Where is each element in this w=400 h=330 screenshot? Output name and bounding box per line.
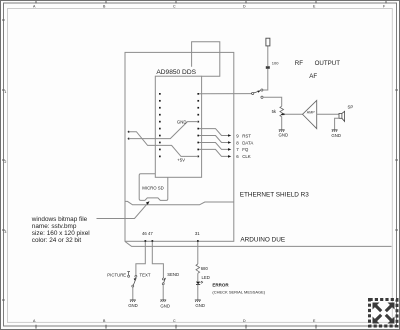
pin 31 xyxy=(197,240,199,242)
ground speaker xyxy=(332,130,338,132)
ground TEXT switch xyxy=(130,300,136,302)
op-amp U2 AMP xyxy=(303,100,317,128)
ground pot xyxy=(279,130,285,132)
svg-text:AD9850 DDS: AD9850 DDS xyxy=(156,69,196,76)
wire +5V net to U1 pin xyxy=(129,132,199,157)
arduino due board outline xyxy=(125,52,234,241)
svg-text:100: 100 xyxy=(272,60,279,65)
wire TEXT switch to ground xyxy=(132,287,134,300)
wire resistor to LED xyxy=(197,273,199,281)
frame letters bottom xyxy=(33,319,316,323)
wire LED to ground xyxy=(197,285,199,300)
svg-text:GND: GND xyxy=(128,303,138,308)
svg-text:AF: AF xyxy=(309,73,317,80)
svg-text:GND: GND xyxy=(177,119,187,124)
switch S1 lever xyxy=(254,91,259,93)
node GND feed junction xyxy=(128,138,130,140)
node +5V feed junction xyxy=(128,131,130,133)
switch position stub PICTURE xyxy=(127,272,130,278)
svg-text:ARDUINO DUE: ARDUINO DUE xyxy=(240,236,285,243)
wire pin 47 to SEND switch xyxy=(152,242,163,278)
svg-text:TEXT: TEXT xyxy=(140,273,151,278)
svg-text:FQ: FQ xyxy=(242,147,249,152)
speaker LS1 xyxy=(339,111,345,121)
svg-text:CLK: CLK xyxy=(242,154,251,159)
svg-text:GND: GND xyxy=(195,303,205,308)
expand icon xyxy=(370,300,398,327)
LED light arrows xyxy=(201,281,203,283)
switch S2 lever xyxy=(133,278,136,285)
svg-text:windows bitmap file: windows bitmap file xyxy=(31,216,88,223)
pin 46 xyxy=(145,240,147,242)
svg-text:MICRO SD: MICRO SD xyxy=(142,185,164,190)
svg-text:SEND: SEND xyxy=(167,272,179,277)
switch S2 TEXT contact top xyxy=(135,275,137,277)
resistor R2 680 xyxy=(196,264,200,273)
LED D1 xyxy=(196,282,200,285)
pins left column of U1 xyxy=(159,93,161,157)
wire ethernet shield separator xyxy=(125,201,234,204)
potentiometer P1 5k xyxy=(280,106,284,116)
frame ticks right xyxy=(395,90,398,230)
wire wiper to amplifier xyxy=(285,113,303,115)
ground SEND switch xyxy=(160,300,166,302)
svg-text:RST: RST xyxy=(242,133,251,138)
switch S2 lever arrowhead xyxy=(134,278,136,281)
svg-text:+5V: +5V xyxy=(177,157,185,162)
frame ticks bottom xyxy=(36,325,316,329)
svg-text:OUTPUT: OUTPUT xyxy=(315,60,341,67)
wire DATA to pin 8 xyxy=(199,136,229,143)
svg-text:31: 31 xyxy=(195,231,200,236)
wire GND net to U1 pin xyxy=(129,122,199,139)
svg-text:PICTURE: PICTURE xyxy=(107,273,126,278)
svg-text:DATA: DATA xyxy=(242,140,253,145)
switch S1 lever arrowhead xyxy=(257,90,260,92)
svg-text:LED: LED xyxy=(202,275,210,280)
wire pin 31 to resistor xyxy=(197,242,199,264)
svg-text:C: C xyxy=(173,319,176,323)
svg-text:D: D xyxy=(243,319,246,323)
svg-text:RF: RF xyxy=(295,60,303,67)
switch S3 SEND contact top xyxy=(162,278,164,280)
switch S3 contact bottom xyxy=(162,283,164,285)
frame letters xyxy=(4,5,386,234)
svg-text:46 47: 46 47 xyxy=(142,231,153,236)
wire speaker to ground xyxy=(335,118,339,129)
svg-text:D: D xyxy=(243,5,246,9)
svg-text:size: 160 x 120 pixel: size: 160 x 120 pixel xyxy=(32,230,90,237)
wire resistor to antenna stub xyxy=(267,46,269,66)
switch S2 contact bottom xyxy=(132,285,134,287)
antenna E1 xyxy=(266,38,270,46)
pin 47 xyxy=(152,240,154,242)
ground LED xyxy=(195,300,201,302)
label bracket to AD9850 DDS xyxy=(192,42,220,76)
arrowhead FQ xyxy=(228,148,231,151)
AD9850 DDS module box U1 xyxy=(155,76,201,177)
svg-text:GND: GND xyxy=(331,133,341,138)
node wiper junction xyxy=(283,113,285,115)
arrowhead pointer xyxy=(146,201,150,205)
wire CLK to pin 6 xyxy=(199,149,229,156)
switch S1 RF contact xyxy=(261,89,263,91)
svg-text:ETHERNET SHIELD R3: ETHERNET SHIELD R3 xyxy=(240,191,310,198)
wire SEND switch to ground xyxy=(162,285,164,300)
svg-text:1: 1 xyxy=(4,90,6,94)
svg-text:C: C xyxy=(173,5,176,9)
svg-text:AMP: AMP xyxy=(307,110,315,114)
potentiometer wiper arrow xyxy=(282,113,284,115)
wire pot to ground xyxy=(281,117,283,130)
svg-text:name: sstv.bmp: name: sstv.bmp xyxy=(32,223,77,230)
switch S3 lever xyxy=(164,278,166,283)
wire DDS output to switch xyxy=(199,93,252,95)
arrowhead RST xyxy=(228,134,231,137)
arrowhead CLK xyxy=(228,155,231,158)
wire FQ to pin 7 xyxy=(199,143,229,150)
micro SD card holder xyxy=(139,174,168,201)
wire pin 46 to TEXT switch xyxy=(136,242,145,275)
svg-text:ERROR: ERROR xyxy=(212,283,229,288)
svg-text:(CHECK SERIAL MESSAGE): (CHECK SERIAL MESSAGE) xyxy=(212,289,265,294)
wire amplifier to speaker xyxy=(317,113,339,115)
frame ticks left xyxy=(2,20,5,300)
switch S1 AF contact xyxy=(261,96,263,98)
wire RST to pin 9 xyxy=(199,129,229,136)
svg-text:3: 3 xyxy=(4,230,6,234)
label windows bitmap file note xyxy=(31,216,90,244)
wire RF contact to antenna xyxy=(263,69,268,90)
wire AF contact to potentiometer xyxy=(263,97,282,106)
svg-text:GND: GND xyxy=(279,133,289,138)
frame ticks top xyxy=(36,1,386,4)
svg-text:color: 24 or 32 bit: color: 24 or 32 bit xyxy=(32,237,82,244)
svg-text:GND: GND xyxy=(160,303,170,308)
resistor R1 100 xyxy=(266,66,270,69)
svg-text:2: 2 xyxy=(4,160,6,164)
switch S1 RF/AF common contact xyxy=(252,92,254,94)
pins right column of U1 xyxy=(197,93,199,157)
arrowhead DATA xyxy=(228,141,231,144)
svg-text:SP: SP xyxy=(348,105,354,110)
svg-text:680: 680 xyxy=(201,266,209,271)
wire arduino bottom rail xyxy=(125,242,391,247)
wire pointer bitmap note to SD slot xyxy=(97,204,148,219)
